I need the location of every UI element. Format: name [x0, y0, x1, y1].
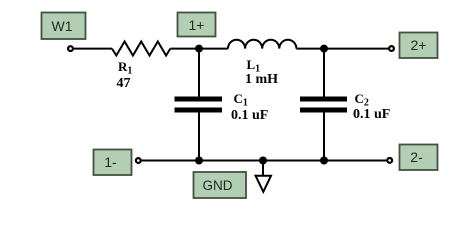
node 2-	[400, 145, 438, 171]
wire	[323, 49, 325, 97]
capacitor C2	[300, 97, 347, 113]
svg-text:W1: W1	[52, 18, 73, 34]
junction node 2 top	[320, 45, 328, 53]
node 1+	[178, 13, 216, 37]
terminal 2+	[389, 46, 394, 51]
resistor R1	[112, 42, 170, 56]
wire	[324, 48, 389, 50]
wire	[142, 160, 389, 162]
wire	[323, 113, 325, 161]
terminal 1-	[136, 158, 141, 163]
terminal 2-	[387, 158, 392, 163]
svg-text:1-: 1-	[104, 154, 117, 170]
svg-text:47: 47	[117, 76, 131, 91]
svg-text:GND: GND	[203, 178, 233, 193]
wire	[74, 48, 112, 50]
junction node 1- bottom	[195, 157, 203, 165]
svg-text:0.1 uF: 0.1 uF	[231, 108, 268, 123]
junction ground	[259, 157, 267, 165]
wire	[199, 48, 228, 50]
svg-text:C1: C1	[234, 91, 248, 109]
node W1	[42, 13, 86, 40]
svg-text:0.1 uF: 0.1 uF	[353, 107, 390, 122]
ground	[256, 161, 271, 192]
inductor L1	[228, 40, 296, 49]
svg-text:2-: 2-	[410, 149, 423, 165]
node 1-	[94, 150, 132, 176]
wire	[296, 48, 324, 50]
node 2+	[400, 33, 438, 59]
node GND	[194, 172, 247, 198]
terminal W1	[68, 46, 73, 51]
svg-text:1+: 1+	[189, 17, 205, 33]
wire	[170, 48, 199, 50]
svg-text:1 mH: 1 mH	[245, 72, 278, 87]
wire	[198, 113, 200, 161]
svg-text:R1: R1	[118, 59, 132, 77]
svg-text:2+: 2+	[411, 37, 427, 53]
svg-text:C2: C2	[355, 91, 369, 109]
wire	[198, 49, 200, 97]
junction node 1+	[195, 45, 203, 53]
junction node 2- bottom	[320, 157, 328, 165]
capacitor C1	[175, 97, 223, 113]
